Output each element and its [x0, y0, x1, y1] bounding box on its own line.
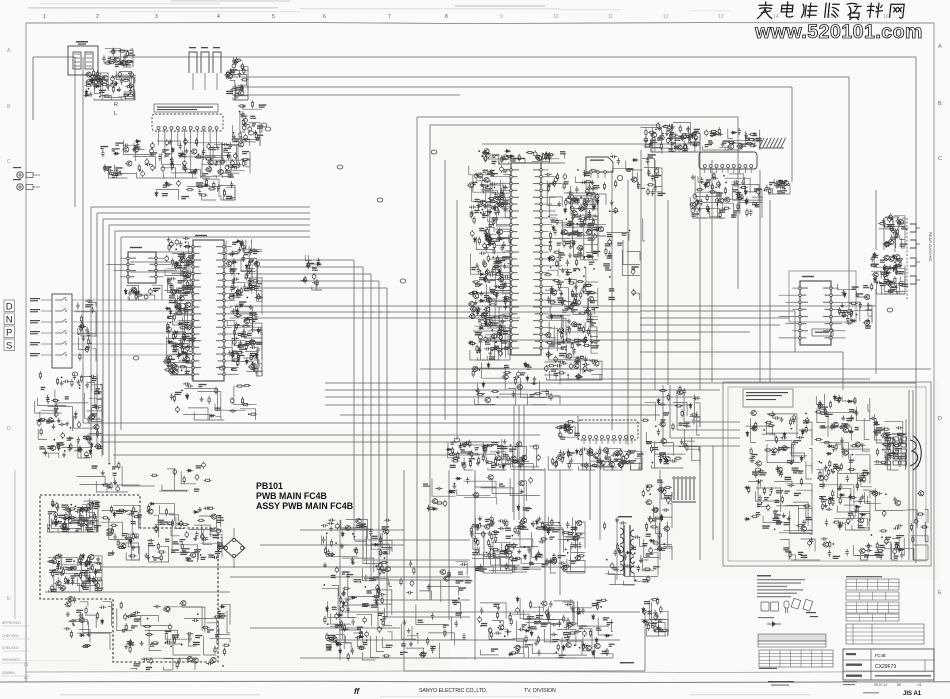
- value label: [678, 136, 684, 139]
- wire: [258, 259, 354, 261]
- resistor R237: [711, 183, 713, 191]
- wire: [245, 307, 253, 333]
- junction: [236, 364, 238, 366]
- junction: [715, 186, 717, 188]
- wire: [48, 407, 73, 432]
- resistor R277: [599, 448, 601, 456]
- capacitor C165: [502, 207, 509, 210]
- capacitor C267: [846, 322, 853, 325]
- value label: [238, 344, 246, 347]
- wire: [505, 331, 510, 350]
- capacitor C41: [225, 164, 229, 171]
- resistor R1: [89, 76, 97, 78]
- ground: [251, 361, 255, 366]
- capacitor C3: [95, 75, 99, 82]
- transistor Q22: [169, 363, 176, 368]
- ground: [574, 284, 578, 289]
- capacitor C16: [238, 71, 241, 78]
- diode D76: [873, 277, 876, 283]
- value label: [169, 300, 176, 303]
- wire: [448, 470, 450, 620]
- capacitor C38: [171, 157, 174, 164]
- value label: [202, 173, 208, 176]
- wire: [711, 160, 713, 382]
- wire: [121, 236, 310, 238]
- transistor Q68: [561, 229, 568, 234]
- diode D77: [888, 280, 894, 283]
- wire: [693, 217, 708, 218]
- diode D22: [165, 307, 171, 310]
- wire: [448, 442, 478, 453]
- wire: [45, 591, 230, 593]
- parts above sound IF: [703, 127, 763, 150]
- capacitor C8: [130, 71, 134, 78]
- diode D2: [84, 94, 90, 97]
- value label: [178, 280, 186, 283]
- resistor R268: [890, 224, 892, 232]
- value label: [253, 251, 259, 254]
- resistor R269: [883, 243, 891, 245]
- resistor R160: [583, 198, 585, 206]
- value label: [188, 255, 194, 258]
- resistor R168: [561, 298, 563, 306]
- wire: [325, 382, 916, 384]
- resistor R28: [241, 63, 243, 71]
- wire: [594, 216, 598, 230]
- transistor Q26: [163, 359, 170, 364]
- transistor Q13: [205, 167, 212, 172]
- wire: [444, 160, 446, 420]
- value label: [488, 279, 496, 282]
- diode D68: [778, 180, 784, 183]
- ground: [232, 134, 236, 139]
- transistor Q102: [887, 240, 894, 245]
- junction: [238, 273, 240, 275]
- value label: [134, 145, 140, 148]
- wire: [41, 411, 55, 418]
- wire: [868, 303, 872, 316]
- watermark Chinese characters 家电维修资料网: [757, 2, 904, 20]
- junction: [732, 142, 734, 144]
- capacitor C198: [563, 173, 567, 180]
- wire: [88, 382, 95, 403]
- wire: [729, 174, 744, 181]
- resistor R159: [486, 233, 488, 241]
- diode D55: [509, 155, 515, 158]
- resistor R15: [107, 62, 115, 64]
- diode D78: [575, 449, 578, 455]
- wire: [571, 186, 593, 208]
- wire: [171, 173, 193, 178]
- wire: [230, 81, 235, 91]
- wire: [638, 468, 642, 470]
- wire: [549, 347, 560, 361]
- wire: [545, 290, 561, 298]
- capacitor C92: [254, 367, 258, 374]
- resistor R275: [561, 456, 563, 464]
- value label: [225, 170, 231, 173]
- capacitor C288: [619, 449, 623, 456]
- wire: [176, 309, 192, 315]
- wire: [724, 178, 750, 193]
- wire: [699, 446, 701, 560]
- diode D57: [569, 221, 572, 227]
- resistor R69: [179, 327, 187, 329]
- junction: [493, 219, 495, 221]
- jungle IC IC601: [490, 158, 569, 355]
- capacitor C89: [241, 244, 245, 251]
- diode D67: [707, 207, 710, 213]
- resistor R16: [126, 50, 128, 58]
- junction: [252, 261, 254, 263]
- resistor R105: [87, 338, 89, 346]
- value label: [498, 330, 505, 333]
- transistor Q75: [502, 155, 509, 160]
- resistor R252: [782, 181, 784, 189]
- value label: [551, 219, 556, 222]
- wire: [760, 190, 762, 197]
- value label: [461, 462, 466, 465]
- ground: [568, 253, 572, 258]
- wire: [559, 249, 571, 270]
- wire: [158, 135, 160, 145]
- wire: [232, 312, 252, 332]
- wire: [578, 466, 595, 470]
- wire: [505, 198, 510, 218]
- svg-text:16: 16: [883, 14, 889, 20]
- parts right of IC801: [232, 123, 264, 146]
- wire: [166, 338, 181, 345]
- wire: [379, 599, 470, 601]
- wire: [673, 122, 691, 145]
- resistor R73: [175, 331, 177, 339]
- resistor R174: [552, 279, 560, 281]
- resistor R142: [487, 255, 489, 263]
- value label: [614, 459, 622, 462]
- resistor R155: [486, 227, 488, 235]
- resistor R54: [178, 366, 186, 368]
- wire: [697, 211, 723, 218]
- resistor R166: [563, 240, 565, 248]
- ground: [57, 418, 61, 423]
- value label: [489, 356, 495, 359]
- diode D21: [173, 331, 179, 334]
- capacitor C186: [500, 314, 507, 317]
- resistor R247: [648, 131, 656, 133]
- capacitor C61: [243, 123, 250, 126]
- wire: [683, 392, 685, 422]
- capacitor C168: [485, 210, 492, 213]
- ground: [721, 142, 725, 147]
- resistor R103: [80, 315, 82, 323]
- wire: [594, 197, 598, 209]
- capacitor C283: [898, 219, 901, 226]
- junction: [232, 281, 234, 283]
- transistor Q104: [586, 449, 593, 454]
- resistor R109: [96, 430, 98, 438]
- transistor Q41: [243, 319, 250, 324]
- transistor Q52: [497, 202, 504, 207]
- resistor R106: [81, 322, 83, 330]
- node bubble: [617, 175, 622, 180]
- wire: [120, 237, 122, 430]
- value label: [584, 173, 590, 176]
- resistor R220: [679, 125, 681, 133]
- resistor R63: [179, 305, 181, 313]
- wire: [486, 340, 506, 358]
- resistor R291: [451, 460, 459, 462]
- value label: [232, 242, 237, 245]
- transistor Q109: [608, 462, 615, 467]
- capacitor C221: [549, 182, 556, 185]
- transistor Q12: [132, 147, 139, 152]
- wire: [129, 297, 136, 301]
- capacitor C53: [184, 138, 187, 145]
- wire: [233, 125, 256, 142]
- transistor Q67: [585, 230, 592, 235]
- capacitor C241: [716, 133, 723, 136]
- value label: [482, 215, 489, 218]
- svg-text:4: 4: [217, 14, 220, 20]
- resistor R132: [498, 194, 500, 202]
- resistor R233: [732, 184, 740, 186]
- svg-text:11: 11: [608, 14, 613, 20]
- resistor R206: [584, 218, 586, 226]
- wire: [91, 349, 96, 362]
- wire: [340, 414, 660, 416]
- resistor R39: [195, 156, 203, 158]
- ground: [249, 305, 253, 310]
- value label: [577, 328, 583, 331]
- transistor Q80: [680, 134, 687, 139]
- value label: [654, 175, 661, 178]
- wire: [189, 170, 201, 178]
- value label: [490, 347, 497, 350]
- wire: [123, 59, 131, 67]
- transistor Q19: [185, 260, 192, 265]
- wire: [228, 76, 849, 78]
- value label: [740, 144, 747, 147]
- wire: [544, 468, 546, 470]
- wire: [252, 239, 263, 251]
- resistor R272: [615, 459, 623, 461]
- wire: [429, 470, 431, 600]
- wire: [184, 246, 192, 264]
- wire: [474, 470, 476, 660]
- wire: [578, 220, 598, 228]
- resistor R187: [585, 335, 587, 343]
- value label: [489, 241, 497, 244]
- wire: [108, 225, 110, 462]
- resistor R280: [580, 449, 582, 457]
- transistor Q69: [548, 256, 555, 261]
- value label: [648, 154, 656, 157]
- value label: [839, 310, 847, 313]
- resistor R140: [492, 265, 500, 267]
- diode D18: [184, 360, 190, 363]
- wire: [330, 639, 620, 641]
- capacitor C24: [232, 166, 239, 169]
- wire: [532, 161, 550, 163]
- junction: [580, 196, 582, 198]
- capacitor C232: [688, 134, 691, 141]
- resistor R278: [567, 450, 569, 458]
- ground: [557, 201, 561, 206]
- svg-text:N: N: [6, 314, 13, 325]
- ground: [488, 351, 492, 356]
- capacitor C277: [890, 235, 893, 242]
- diode D53: [550, 313, 553, 319]
- wire: [92, 385, 102, 410]
- ground: [562, 339, 566, 344]
- wire: [246, 159, 250, 165]
- wire: [403, 470, 405, 671]
- transistor Q24: [174, 305, 181, 310]
- ground: [658, 126, 662, 131]
- capacitor C34: [183, 160, 187, 167]
- diode D73: [873, 252, 876, 258]
- resistor R145: [502, 192, 504, 200]
- resistor R181: [550, 231, 552, 239]
- resistor R170: [578, 312, 586, 314]
- value label: [251, 341, 255, 344]
- value label: [899, 271, 905, 274]
- wire: [37, 398, 66, 406]
- wire: [430, 124, 660, 126]
- wire: [232, 139, 250, 146]
- value label: [252, 123, 256, 126]
- wire: [506, 299, 510, 308]
- ground: [483, 276, 487, 281]
- capacitor C114: [87, 331, 90, 338]
- capacitor C171: [503, 276, 510, 279]
- capacitor C42: [151, 142, 155, 149]
- wire: [244, 278, 262, 298]
- wire: [900, 235, 905, 240]
- resistor R17: [109, 57, 117, 59]
- ground: [480, 182, 484, 187]
- ground: [238, 340, 242, 345]
- resistor R178: [589, 170, 597, 172]
- value label: [565, 241, 571, 244]
- value label: [671, 142, 677, 145]
- wire: [677, 429, 740, 431]
- line filter parts: [102, 48, 135, 68]
- transistor Q64: [587, 296, 594, 301]
- capacitor C70: [182, 332, 185, 339]
- sheet frame bottom border: [0, 681, 950, 682]
- wire: [300, 657, 600, 659]
- capacitor C270: [859, 302, 862, 309]
- value label: [97, 446, 103, 449]
- capacitor C93: [242, 246, 245, 253]
- wire: [246, 160, 250, 167]
- wire: [723, 203, 733, 218]
- resistor R62: [181, 346, 183, 354]
- value label: [719, 209, 726, 212]
- resistor R236: [707, 204, 709, 212]
- resistor R138: [498, 286, 506, 288]
- value label: [250, 116, 256, 119]
- resistor R30: [227, 165, 235, 167]
- capacitor C157: [500, 191, 503, 198]
- capacitor C302: [482, 444, 485, 451]
- wire: [728, 129, 733, 139]
- capacitor C245: [695, 199, 699, 206]
- value label: [185, 289, 193, 292]
- resistor R47: [238, 105, 246, 107]
- capacitor C20: [225, 72, 228, 79]
- value label: [100, 146, 108, 149]
- capacitor C197: [583, 200, 587, 207]
- value label: [167, 316, 172, 319]
- resistor R71: [176, 364, 178, 372]
- wire: [639, 462, 642, 470]
- value label: [185, 371, 190, 374]
- wire: [74, 416, 98, 429]
- wire: [260, 371, 262, 376]
- wire: [200, 176, 217, 178]
- wire: [640, 150, 642, 470]
- ground: [214, 161, 218, 166]
- value label: [92, 413, 98, 416]
- resistor R10: [109, 84, 117, 86]
- wire: [848, 302, 860, 321]
- transistor Q8: [226, 74, 233, 79]
- capacitor C146: [478, 200, 485, 203]
- junction: [232, 352, 234, 354]
- capacitor C131: [77, 421, 81, 428]
- capacitor C78: [185, 345, 192, 348]
- wire: [173, 316, 189, 326]
- capacitor C107: [242, 255, 245, 262]
- wire: [586, 268, 598, 282]
- wire: [187, 307, 192, 325]
- wire: [222, 177, 230, 178]
- capacitor C280: [896, 218, 899, 225]
- junction: [88, 88, 90, 90]
- value label: [889, 226, 894, 229]
- wire: [246, 372, 262, 376]
- diode D23: [240, 241, 243, 247]
- wire: [885, 218, 893, 226]
- capacitor C18: [232, 62, 236, 69]
- wire: [553, 359, 571, 361]
- ground: [185, 148, 189, 153]
- wire: [95, 73, 108, 91]
- wire: [260, 127, 262, 133]
- junction: [138, 291, 140, 293]
- transistor Q20: [179, 258, 186, 263]
- junction: [501, 348, 503, 350]
- resistor R163: [580, 291, 582, 299]
- resistor R56: [168, 277, 170, 285]
- wire: [549, 322, 556, 338]
- junction: [242, 88, 244, 90]
- wire: [875, 289, 877, 374]
- wire: [885, 217, 899, 230]
- degauss parts: [225, 57, 249, 100]
- transistor Q15: [190, 149, 197, 154]
- junction: [243, 106, 245, 108]
- value label: [657, 137, 663, 140]
- wire: [190, 279, 192, 298]
- wire: [223, 142, 251, 160]
- resistor R165: [556, 260, 558, 268]
- resistor R224: [718, 127, 720, 135]
- wire: [684, 421, 740, 423]
- wire: [750, 138, 760, 150]
